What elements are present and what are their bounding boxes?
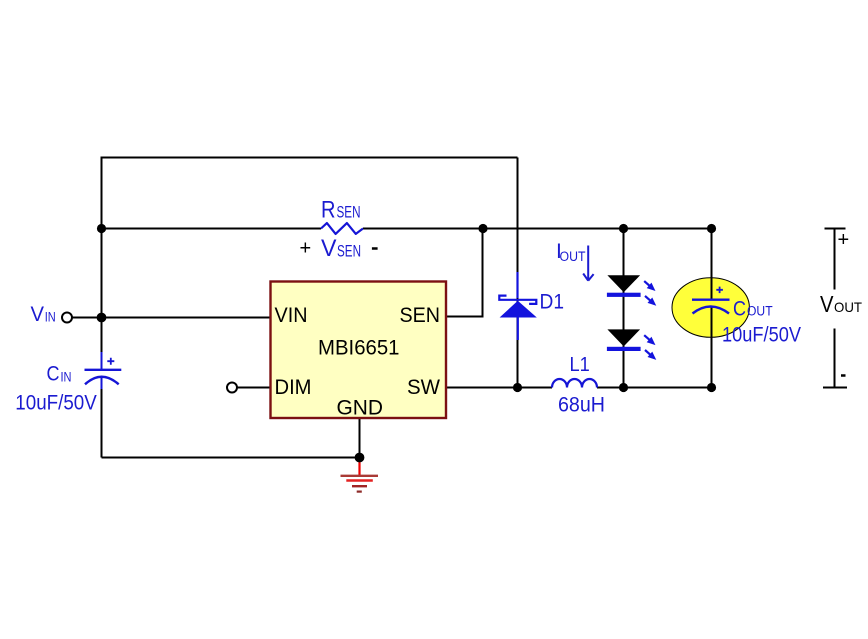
capacitor COUT body bbox=[672, 278, 749, 338]
wire VIN pin bbox=[73, 317, 271, 319]
svg-text:SEN: SEN bbox=[337, 204, 361, 222]
wire L1 to COUT bbox=[597, 387, 712, 389]
wire left vertical lower bbox=[101, 378, 103, 458]
svg-text:V: V bbox=[820, 291, 834, 317]
node junction dots bbox=[97, 224, 717, 463]
node LED top bbox=[619, 224, 628, 233]
inductor L1 bbox=[552, 379, 597, 388]
node COUT top bbox=[707, 224, 716, 233]
label RSEN bbox=[321, 197, 361, 224]
svg-text:D1: D1 bbox=[540, 291, 565, 314]
node VIN input bbox=[97, 313, 107, 323]
wire SW pin to L1 bbox=[446, 387, 552, 389]
svg-text:SEN: SEN bbox=[337, 243, 361, 261]
capacitor CIN symbol bbox=[85, 352, 122, 389]
svg-text:10uF/50V: 10uF/50V bbox=[722, 324, 801, 347]
node SEN rail bbox=[478, 224, 487, 233]
node ground bbox=[355, 453, 365, 463]
wire LED branch bbox=[623, 229, 625, 388]
wire COUT vertical upper bbox=[711, 229, 713, 300]
svg-text:R: R bbox=[321, 197, 336, 224]
wire GND pin bbox=[359, 418, 361, 458]
svg-text:VIN: VIN bbox=[275, 303, 308, 327]
capacitor COUT symbol bbox=[692, 287, 730, 314]
svg-text:C: C bbox=[47, 362, 60, 386]
diode D1 (schottky) bbox=[499, 272, 537, 340]
svg-text:OUT: OUT bbox=[834, 299, 862, 315]
svg-text:L1: L1 bbox=[570, 354, 590, 376]
svg-text:C: C bbox=[733, 298, 746, 321]
svg-text:SW: SW bbox=[407, 375, 441, 399]
node LED bottom bbox=[619, 383, 628, 392]
svg-text:IN: IN bbox=[61, 370, 72, 385]
label COUT bbox=[722, 298, 801, 347]
resistor RSEN bbox=[321, 223, 363, 234]
wire SEN pin bbox=[446, 229, 483, 317]
wire VIN rail left segment bbox=[102, 228, 322, 230]
label CIN bbox=[15, 362, 97, 415]
label VIN bbox=[31, 302, 56, 326]
svg-text:OUT: OUT bbox=[747, 304, 773, 319]
ground bbox=[341, 461, 379, 492]
svg-text:SEN: SEN bbox=[400, 303, 441, 327]
LED D3 bbox=[607, 329, 659, 362]
svg-text:MBI6651: MBI6651 bbox=[318, 336, 400, 360]
svg-text:+: + bbox=[838, 229, 850, 251]
terminal VIN bbox=[62, 313, 72, 323]
svg-text:DIM: DIM bbox=[275, 375, 312, 399]
svg-text:GND: GND bbox=[337, 396, 384, 420]
VOUT bracket bbox=[823, 229, 847, 388]
terminal DIM bbox=[227, 383, 237, 393]
svg-text:10uF/50V: 10uF/50V bbox=[15, 392, 97, 415]
svg-text:68uH: 68uH bbox=[558, 394, 605, 417]
node COUT bottom bbox=[707, 383, 716, 392]
wire VIN rail right segment bbox=[363, 228, 712, 230]
wire top rail bbox=[102, 157, 518, 159]
svg-text:V: V bbox=[31, 302, 45, 326]
node VIN-rail left bbox=[97, 224, 106, 233]
label VSEN with polarity bbox=[300, 235, 378, 262]
label VOUT bbox=[820, 229, 862, 376]
wire DIM pin bbox=[238, 387, 271, 389]
wire COUT vertical lower bbox=[711, 307, 713, 388]
wire D1 vertical bbox=[517, 158, 519, 388]
wire bottom bbox=[102, 457, 360, 459]
svg-text:OUT: OUT bbox=[560, 249, 586, 264]
LED D2 bbox=[607, 275, 659, 308]
svg-text:V: V bbox=[321, 235, 337, 262]
svg-text:IN: IN bbox=[45, 310, 56, 325]
svg-text:+: + bbox=[300, 238, 312, 260]
node SW-D1 bbox=[513, 383, 522, 392]
op-amp U1 MBI6651 box bbox=[271, 282, 447, 420]
label IOUT with arrow bbox=[556, 240, 594, 281]
wire left vertical upper bbox=[101, 157, 103, 370]
